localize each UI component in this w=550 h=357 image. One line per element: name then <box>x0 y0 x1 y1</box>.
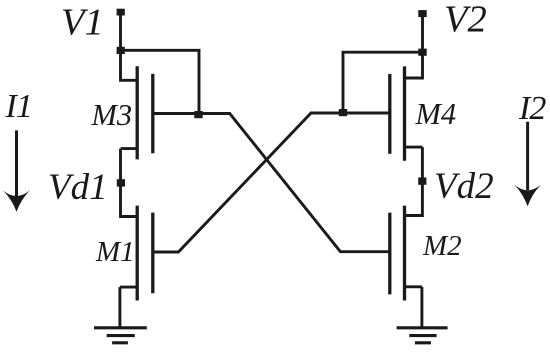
ground left <box>94 328 147 343</box>
svg-text:V2: V2 <box>444 0 487 41</box>
wire M1 source to ground <box>118 287 121 328</box>
wire M2 source to ground <box>420 287 423 328</box>
ground right <box>397 328 448 343</box>
svg-text:Vd1: Vd1 <box>48 167 108 208</box>
transistor M4 <box>390 66 423 160</box>
svg-text:Vd2: Vd2 <box>434 166 494 207</box>
node V1 junction square <box>117 47 125 54</box>
transistor M2 <box>390 206 422 301</box>
node M4 gate junction square <box>339 109 347 116</box>
svg-text:I1: I1 <box>5 88 32 125</box>
wire right rail V2 to M4 drain <box>405 14 423 79</box>
node Vd2 square <box>418 177 426 184</box>
wire cross-couple M3 gate to M2 gate <box>153 114 390 252</box>
node Vd1 square <box>117 179 125 186</box>
wire M3 drain-to-gate feedback <box>121 50 200 113</box>
wire left rail V1 to M3 drain <box>121 12 138 80</box>
svg-text:M4: M4 <box>415 97 457 131</box>
node V2 terminal square <box>418 10 426 17</box>
node V1 terminal square <box>117 9 125 16</box>
wire Vd2 rail (M4 source to M2 drain) <box>405 147 423 215</box>
svg-text:V1: V1 <box>61 2 104 44</box>
svg-text:I2: I2 <box>518 90 546 127</box>
wire Vd1 rail (M3 source to M1 drain) <box>121 149 138 217</box>
current arrow I1 <box>3 130 30 211</box>
current arrow I2 <box>514 122 541 207</box>
wire M4 drain-to-gate feedback <box>343 52 423 113</box>
node V2 junction square <box>418 49 426 56</box>
transistor M3 <box>121 66 153 159</box>
svg-text:M1: M1 <box>95 236 135 268</box>
node M3 gate junction square <box>194 111 202 118</box>
wire cross-couple M4 gate to M1 gate <box>153 113 391 252</box>
svg-text:M2: M2 <box>422 230 462 262</box>
svg-text:M3: M3 <box>91 98 133 132</box>
transistor M1 <box>120 206 153 301</box>
